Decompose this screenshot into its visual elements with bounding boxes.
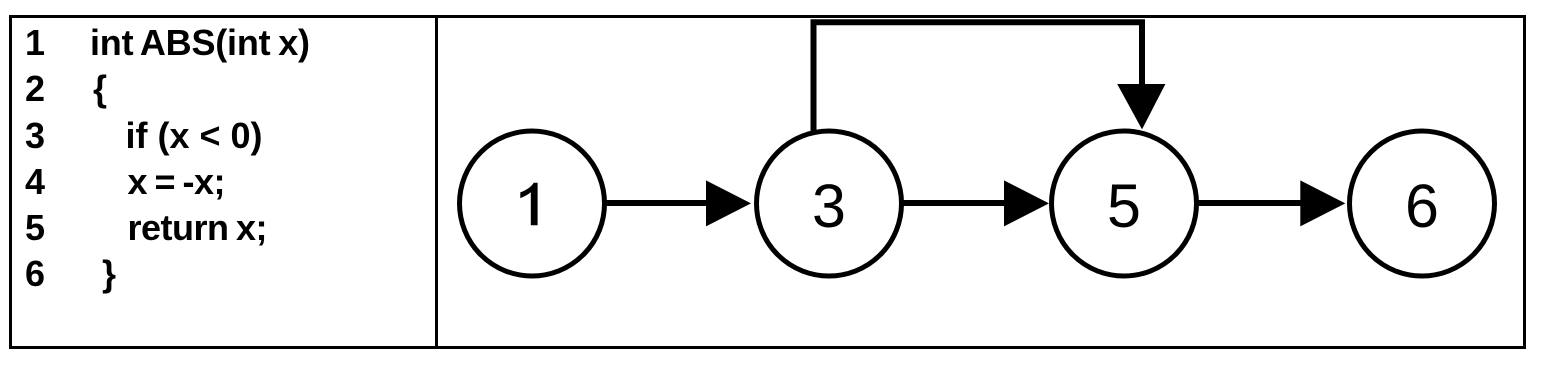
svg-text:3: 3 <box>812 172 846 240</box>
svg-text:6: 6 <box>1405 172 1439 240</box>
svg-text:5: 5 <box>1107 172 1141 240</box>
